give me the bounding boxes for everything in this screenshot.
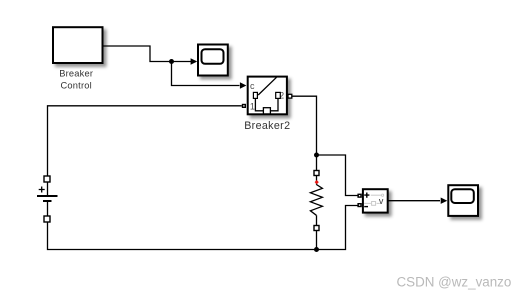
battery positive plate xyxy=(37,195,58,197)
wire top port to zigzag xyxy=(316,176,318,185)
scope Scope1 (right) xyxy=(448,185,478,216)
wire junction C to resistor top port xyxy=(316,155,318,171)
scope Scope (top) xyxy=(198,45,228,76)
voltmeter internal sense line top xyxy=(371,194,382,196)
Breaker2 switch diagonal xyxy=(258,77,276,95)
wire Breaker2 input 1 from battery positive xyxy=(48,106,242,176)
junction C xyxy=(314,153,319,158)
svg-text:Control: Control xyxy=(61,80,92,90)
wire bottom port to junction B xyxy=(316,231,318,250)
svg-text:CSDN @wz_vanzo: CSDN @wz_vanzo xyxy=(397,275,512,290)
plus sign xyxy=(39,187,45,193)
wire junction A to Breaker2 control input xyxy=(172,62,240,86)
wire Breaker2 output to junction C xyxy=(292,96,317,155)
wire port to plus plate xyxy=(47,182,49,196)
battery top port square xyxy=(44,176,50,182)
Breaker2 output port 2 square xyxy=(288,94,292,98)
battery bottom port square xyxy=(44,216,50,222)
voltmeter plus port square xyxy=(357,194,361,198)
Breaker2 right contact xyxy=(276,92,281,98)
voltmeter internal sense line bottom xyxy=(364,202,380,204)
voltmeter minus sign xyxy=(364,206,368,208)
svg-text:Breaker: Breaker xyxy=(59,69,93,79)
svg-text:v: v xyxy=(379,196,384,206)
arrowhead into Scope1 xyxy=(441,198,448,204)
voltmeter U2 voltage measurement xyxy=(357,189,387,212)
svg-text:Breaker2: Breaker2 xyxy=(244,120,290,132)
resistor bottom port square xyxy=(314,226,319,231)
wire zigzag to bottom port xyxy=(316,215,318,225)
wire Breaker Control output to junction A and Scope xyxy=(103,46,196,62)
Breaker2 internal wire right xyxy=(270,99,278,111)
arrowhead into Scope xyxy=(191,58,198,64)
block Breaker Control xyxy=(53,27,103,63)
arrowhead into Breaker2 c xyxy=(240,82,247,88)
DC voltage source battery xyxy=(37,176,58,222)
red signal marker xyxy=(315,180,319,184)
resistor R (series RLC branch) xyxy=(310,155,322,250)
breaker U1 Breaker2 xyxy=(242,77,292,115)
wire junction C to voltmeter plus xyxy=(317,155,358,196)
wire voltmeter output to Scope1 xyxy=(388,200,441,202)
resistor zigzag xyxy=(310,185,322,216)
Breaker2 left contact xyxy=(253,92,257,98)
resistor top port square xyxy=(314,171,319,176)
battery negative plate xyxy=(43,200,52,202)
junction A xyxy=(169,59,174,64)
voltmeter plus sign xyxy=(364,193,369,198)
wire battery negative bottom return to voltmeter minus xyxy=(48,206,358,250)
voltmeter minus port square xyxy=(357,203,361,207)
svg-text:c: c xyxy=(250,81,255,91)
label Breaker Control xyxy=(59,69,93,91)
wire negative plate to bottom port xyxy=(47,201,49,216)
Breaker2 internal element box xyxy=(263,108,270,114)
svg-text:1: 1 xyxy=(250,102,255,112)
Breaker2 input port 1 square xyxy=(242,104,246,108)
Breaker2 internal wire left xyxy=(255,99,263,111)
junction B resistor bottom xyxy=(314,247,319,252)
